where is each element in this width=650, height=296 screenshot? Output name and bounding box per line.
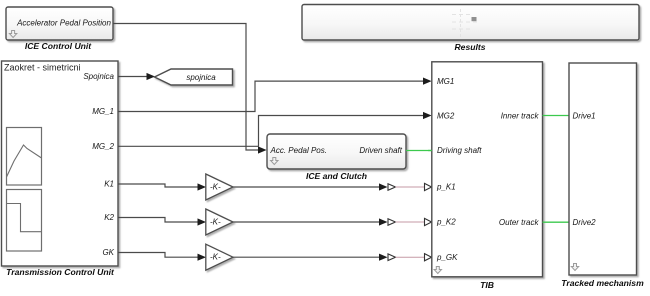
block TIB [432,62,543,277]
svg-text:Outer track: Outer track [499,218,540,227]
svg-text:Results: Results [454,42,485,52]
wire gain G1 to TIB p_K1 (with converter arrowheads and red segment) [233,183,432,190]
svg-text:-K-: -K- [210,253,221,262]
wire gain G2 to TIB p_K2 [233,218,432,225]
subsystem badge arrow of Tracked mechanism [571,264,578,271]
wire K1 to gain G1 [118,183,206,190]
gain G3 -K- [206,244,233,270]
svg-text:Driven shaft: Driven shaft [359,146,402,155]
svg-text:Driving shaft: Driving shaft [437,146,482,155]
caption Transmission Control Unit [6,267,115,277]
wire MG_1 to TIB MG1 [118,78,432,112]
wire Driven shaft to Driving shaft (green) [406,150,432,152]
block Transmission Control Unit [2,61,119,266]
goto tag spojnica [155,69,233,85]
svg-text:p_K1: p_K1 [436,183,456,192]
svg-text:K1: K1 [104,180,114,189]
block Tracked mechanism [569,63,637,275]
wire K2 to gain G2 [118,218,206,226]
block ICE Control Unit (Accelerator Pedal Position subsystem) [6,7,113,40]
svg-text:Tracked mechanism: Tracked mechanism [561,278,644,288]
svg-text:ICE Control Unit: ICE Control Unit [25,41,92,51]
svg-text:-K-: -K- [210,218,221,227]
svg-text:MG2: MG2 [437,111,455,120]
gain G2 -K- [206,209,233,235]
caption TIB [480,280,494,290]
svg-text:TIB: TIB [480,280,494,290]
svg-text:Spojnica: Spojnica [83,72,114,81]
wire Inner track to Drive1 (green) [543,115,570,117]
subsystem badge arrow of ICE and Clutch [271,158,278,165]
svg-text:MG1: MG1 [437,77,454,86]
wire Spojnica to goto tag [118,73,155,80]
svg-text:p_K2: p_K2 [436,217,456,226]
svg-text:Drive2: Drive2 [573,218,597,227]
caption ICE and Clutch [306,171,367,181]
block ICE and Clutch [267,134,406,169]
TCU icon lower axes with step signal [7,190,42,252]
Results faint icon marks [452,9,478,37]
caption Results [454,42,485,52]
green stub at Driving shaft port [428,150,432,152]
block Results [302,5,639,41]
caption ICE Control Unit [25,41,92,51]
gain G1 -K- [206,174,233,200]
svg-text:ICE and Clutch: ICE and Clutch [306,171,367,181]
svg-text:K2: K2 [104,213,114,222]
svg-text:GK: GK [102,248,114,257]
caption Tracked mechanism [561,278,644,288]
wire GK to gain G3 [118,253,206,261]
wire Accelerator Pedal Position to Acc. Pedal Pos. [113,24,267,154]
svg-text:MG_1: MG_1 [92,107,114,116]
wire MG_2 to TIB MG2 [118,112,432,146]
svg-text:Inner track: Inner track [501,111,540,120]
svg-text:p_GK: p_GK [436,253,458,262]
svg-text:Drive1: Drive1 [573,111,596,120]
svg-text:Zaokret - simetricni: Zaokret - simetricni [4,63,81,73]
subsystem badge arrow of TIB [434,267,441,274]
svg-text:MG_2: MG_2 [92,142,114,151]
svg-text:Accelerator Pedal Position: Accelerator Pedal Position [16,19,111,28]
wire Outer track to Drive2 (green) [543,221,570,223]
TCU icon upper axes with curve [7,128,42,186]
svg-text:Acc. Pedal Pos.: Acc. Pedal Pos. [270,146,327,155]
svg-text:-K-: -K- [210,183,221,192]
subsystem badge arrow of ICE Control Unit [9,31,16,38]
svg-text:spojnica: spojnica [186,73,216,82]
wire gain G3 to TIB p_GK [233,254,432,261]
svg-text:Transmission Control Unit: Transmission Control Unit [6,267,115,277]
